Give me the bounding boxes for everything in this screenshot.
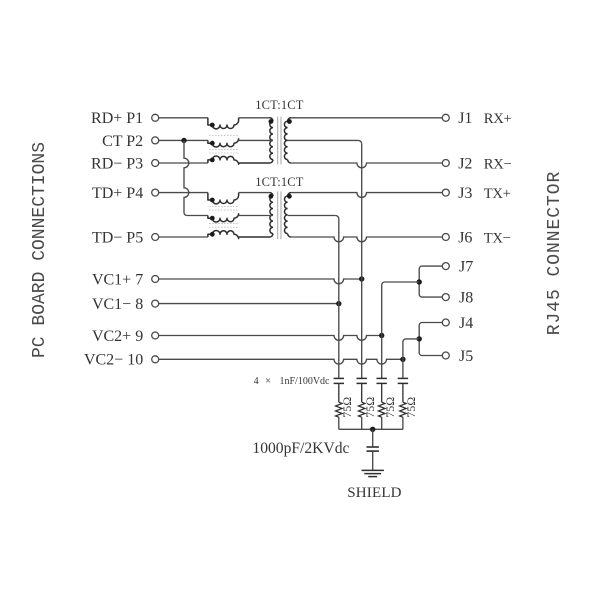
choke T2 winding c [208,230,239,238]
svg-text:1000pF/2KVdc: 1000pF/2KVdc [252,440,349,457]
wire node A vertical [338,219,340,379]
choke T2 core dash 3 [209,223,238,225]
pin J1 [442,114,449,121]
transformer T1 core [277,117,279,165]
choke T1 dot b [210,141,215,146]
junction bus center [370,427,375,432]
capacitor 1nF #4 [398,377,408,379]
pin P5 [152,234,159,241]
capacitor 1nF #2 [357,377,367,379]
resistor 75&#937; #2 [359,402,365,417]
svg-text:75Ω: 75Ω [404,397,418,418]
pin P2 [152,137,159,144]
transformer T1 secondary bottom corner [288,160,291,163]
junction VC2-/D [400,357,405,362]
svg-text:J8: J8 [459,290,473,307]
wire cap1 to resistor [338,383,340,402]
wire T1 choke-a to primary [239,117,270,119]
junction VC2+/C [379,333,384,338]
transformer T2 primary phase dot [269,194,274,199]
wire bus to 1000pF [372,429,374,447]
wire J1 RX+ [291,117,442,119]
wire P4 to choke T2a [159,192,208,194]
pin VC1+ (7) [152,276,159,283]
svg-text:J1: J1 [458,110,472,127]
choke T1 winding b [208,139,239,147]
svg-text:VC1+ 7: VC1+ 7 [92,271,143,288]
transformer T1 secondary phase dot [287,119,292,124]
svg-text:VC1− 8: VC1− 8 [92,296,143,313]
wire resistor3 to bus [381,417,383,429]
svg-text:RX+: RX+ [484,111,512,127]
choke T1 core dash 2 [209,148,238,150]
svg-text:4: 4 [254,376,259,387]
wire P3 to choke T1c [159,162,208,164]
svg-text:J6: J6 [458,229,472,246]
transformer T1 primary phase dot [269,119,274,124]
svg-text:75Ω: 75Ω [363,397,377,418]
svg-text:TD+ P4: TD+ P4 [92,185,143,202]
resistor 75&#937; #3 [379,402,385,417]
svg-text:CT P2: CT P2 [102,133,143,150]
wire J3 TX+ [291,193,442,198]
svg-text:J7: J7 [459,259,473,276]
svg-text:TX−: TX− [484,230,511,246]
pin P4 [152,189,159,196]
svg-text:TX+: TX+ [484,186,511,202]
wire J7/J8 to node C [382,282,420,285]
wire VC2- to node D [159,359,403,364]
wire T2 primary bottom [239,234,273,237]
wire T2 choke-a to primary [239,192,270,194]
wire resistor1 to bus [338,417,340,429]
wire VC1+ to node B [159,279,362,284]
choke T2 dot a [210,198,215,203]
wire J7 branch [419,266,442,282]
pin P3 [152,160,159,167]
resistor 75&#937; #1 [336,402,342,417]
choke T2 core dash 4 [209,226,238,228]
svg-text:75Ω: 75Ω [340,397,354,418]
wire J5 branch [419,339,442,356]
wire resistor4 to bus [402,417,404,429]
pin J6 [442,234,449,241]
wire J8 branch [419,282,442,297]
svg-text:VC2− 10: VC2− 10 [84,352,143,369]
wire T2 choke-b to primary tap [239,215,273,217]
pin J3 [442,189,449,196]
wire P5 to choke T2c [159,236,208,238]
svg-text:1nF/100Vdc: 1nF/100Vdc [280,376,331,387]
transformer T2 primary winding [270,196,273,234]
pin J7 [442,263,449,270]
pin VC1- (8) [152,300,159,307]
junction VC1+/B [359,276,364,281]
pin VC2- (10) [152,356,159,363]
choke T1 core dash 1 [209,134,238,136]
svg-text:PC BOARD CONNECTIONS: PC BOARD CONNECTIONS [30,142,50,358]
choke T2 core dash 2 [209,209,238,211]
svg-text:1CT:1CT: 1CT:1CT [255,98,304,112]
capacitor 1nF #3 [377,377,387,379]
svg-text:J5: J5 [459,348,473,365]
wire node B vertical [361,144,363,379]
choke T2 winding a [208,193,239,204]
junction J7/J8 [417,279,422,284]
junction VC1-/A [336,301,341,306]
svg-text:VC2+ 9: VC2+ 9 [92,328,143,345]
wire T1 secondary CT to node B [288,139,359,141]
transformer T2 core [277,191,279,239]
svg-text:J2: J2 [458,155,472,172]
svg-text:SHIELD: SHIELD [347,485,402,501]
wire cap3 to resistor [381,383,383,402]
wire T2 secondary CT to node A [288,215,336,217]
svg-text:J4: J4 [459,315,473,332]
wire cap4 to resistor [402,383,404,402]
resistor 75&#937; #4 [400,402,406,417]
wire node C vertical [381,285,383,378]
transformer T1 secondary winding [284,121,287,159]
junction J4/J5 [417,336,422,341]
choke T1 winding c [208,156,239,164]
transformer T1 secondary top corner [288,118,291,121]
svg-text:RJ45 CONNECTOR: RJ45 CONNECTOR [545,171,565,336]
transformer T2 secondary top corner [288,193,291,196]
svg-text:75Ω: 75Ω [383,397,397,418]
wire J6 TX- [291,237,442,242]
svg-text:RD+ P1: RD+ P1 [91,110,143,127]
wire 1000pF to ground [372,451,374,470]
junction CT node [181,138,186,143]
pin P1 [152,114,159,121]
pin J2 [442,160,449,167]
wire J4 branch [419,323,442,339]
wire CT vertical to T2 center [184,140,189,212]
wire P1 to choke T1a [159,117,208,119]
wire P2 to choke T1b [159,139,208,141]
transformer T2 secondary bottom corner [288,234,291,237]
capacitor 1000pF [367,446,379,448]
ground (shield) [362,469,384,471]
capacitor 1nF #1 [334,377,344,379]
choke T2 dot b [210,216,215,221]
transformer T2 secondary phase dot [287,194,292,199]
choke T1 dot c [210,158,215,163]
pin J5 [442,352,449,359]
wire T1 choke-b to primary tap [239,139,273,141]
wire J4/J5 to node D [403,339,419,342]
transformer T2 secondary winding [284,196,287,234]
svg-text:TD− P5: TD− P5 [92,229,143,246]
wire node D vertical [402,342,404,379]
svg-text:J3: J3 [458,185,472,202]
wire T1 primary bottom [239,160,273,163]
choke T2 winding b [208,214,239,222]
pin J8 [442,294,449,301]
choke T1 winding a [208,118,239,129]
choke T2 core dash 1 [209,206,238,208]
choke T1 core dash 3 [209,152,238,154]
choke T2 dot c [210,232,215,237]
transformer T1 primary winding [270,121,273,159]
wire J2 RX- [291,163,442,168]
pin VC2+ (9) [152,332,159,339]
pin J4 [442,319,449,326]
wire cap2 to resistor [361,383,363,402]
wire VC2+ to node C [159,336,382,341]
svg-text:RD− P3: RD− P3 [91,155,143,172]
wire termination bus [339,428,403,430]
svg-text:×: × [265,376,271,387]
svg-text:1CT:1CT: 1CT:1CT [255,175,304,189]
svg-text:RX−: RX− [484,156,512,172]
wire VC1- to node A [159,303,339,305]
choke T1 dot a [210,123,215,128]
wire resistor2 to bus [361,417,363,429]
